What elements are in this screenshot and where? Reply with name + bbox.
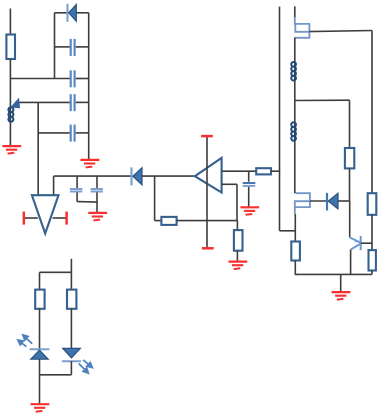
LED D4 arrows — [18, 335, 32, 347]
capacitor C6 — [91, 176, 103, 212]
wire stub above Q1 — [294, 6, 296, 17]
wire buffer right terminal — [53, 217, 66, 219]
diode D3 — [327, 193, 338, 211]
wire main row — [54, 175, 131, 177]
wire — [70, 309, 72, 349]
diode D1 — [68, 4, 77, 22]
wire feedback bottom left — [155, 220, 162, 222]
wire ladder top row — [55, 12, 68, 14]
resistor R9 — [35, 290, 44, 309]
wire Q3 base to right rail — [361, 242, 372, 244]
wire left tall rail — [279, 7, 281, 231]
inductor L2 — [291, 62, 296, 80]
wire LED top row — [40, 271, 72, 273]
variable inductor L1 coil — [8, 107, 13, 122]
capacitor C4 — [71, 125, 75, 142]
inductor L3 — [291, 122, 296, 140]
ground G5 — [240, 207, 259, 215]
wire buffer right input — [53, 176, 55, 195]
ground G6 — [332, 292, 351, 300]
wire op-amp power rail vertical — [206, 137, 208, 249]
resistor R3 — [161, 217, 176, 225]
wire to R4 — [236, 221, 238, 231]
wire R8 to bottom row — [294, 261, 296, 275]
transistor Q3 — [350, 236, 361, 250]
transistor Q1 — [294, 17, 309, 38]
resistor R10 — [67, 290, 76, 309]
wire rail bottom link — [280, 230, 296, 232]
wire wiper row to cap row 3 — [15, 101, 70, 103]
variable inductor L1 wiper arrow — [10, 98, 20, 109]
wire feedback drop — [154, 176, 156, 221]
ground G7 — [31, 404, 50, 412]
terminal bar left (red) — [23, 212, 26, 225]
wire junction to cap row 2 — [10, 78, 70, 80]
ground G2 — [81, 160, 100, 168]
wire — [9, 59, 11, 147]
wire right branch — [70, 272, 72, 289]
wire cap ladder left rail — [54, 13, 56, 79]
wire ground stub — [340, 274, 342, 292]
wire feedback right vertical — [236, 184, 238, 220]
diode D2 — [132, 167, 143, 185]
wire Q2 to R8 — [294, 214, 296, 242]
resistor R7 — [369, 250, 376, 270]
wire cap row 4 — [38, 132, 69, 134]
wire R4 to ground — [236, 251, 238, 262]
wire to ground — [39, 375, 41, 405]
wire cap pair link — [77, 201, 97, 204]
wire feedback bottom right — [177, 220, 238, 222]
ground G1 — [2, 146, 21, 154]
wire cap ladder right rail — [88, 13, 90, 160]
wire right rail mid — [371, 215, 373, 250]
wire cap row 2 right — [76, 78, 89, 80]
wire buffer left input — [37, 102, 39, 195]
LED D4 — [30, 349, 50, 359]
wire R5 to diode row — [349, 168, 351, 201]
wire op-amp + input row — [222, 170, 257, 172]
wire — [39, 309, 41, 349]
wire — [70, 361, 72, 375]
power bar top (red) — [201, 135, 213, 138]
wire diode to op-amp — [142, 175, 195, 177]
op-amp U2 — [195, 158, 222, 193]
wire Q2 to diode — [310, 200, 327, 202]
wire Q3 emitter down — [350, 250, 352, 275]
wire mid junction row — [295, 99, 350, 101]
resistor R4 — [234, 230, 243, 251]
wire Q1 drain to right rail — [309, 31, 372, 32]
wire diode to junction — [338, 200, 350, 202]
capacitor C7 — [243, 171, 256, 206]
capacitor C5 — [70, 176, 82, 202]
capacitor C2 — [71, 70, 75, 87]
ground G3 — [88, 213, 107, 221]
wire feedback top — [222, 183, 237, 185]
wire rail to Q2 — [294, 101, 296, 194]
resistor R5 — [345, 148, 354, 168]
LED D5 — [62, 348, 81, 361]
terminal bar right (red) — [65, 212, 68, 225]
resistor R8 — [291, 242, 300, 261]
wire resistor to rail — [271, 170, 280, 172]
LED D5 arrows — [79, 360, 93, 373]
wire cap row 1 — [55, 46, 70, 48]
op-amp U1 buffer triangle — [32, 195, 59, 233]
capacitor C3 — [71, 94, 75, 111]
power bar bottom (red) — [202, 247, 214, 250]
wire junction to Q3 collector — [349, 201, 351, 237]
ground G4 — [229, 262, 248, 270]
wire left branch — [39, 272, 41, 289]
wire LED bottom row — [40, 374, 72, 376]
resistor R2 — [256, 168, 271, 174]
transistor Q2 — [295, 193, 310, 214]
wire buffer left terminal — [25, 217, 38, 219]
wire LED stub top — [70, 259, 72, 273]
wire top-left stub — [9, 9, 11, 35]
resistor R6 — [368, 193, 377, 215]
resistor R1 — [6, 35, 15, 60]
wire bottom row — [295, 273, 372, 275]
wire right rail bottom — [371, 271, 373, 275]
wire right rail upper — [371, 31, 373, 194]
capacitor C1 — [71, 39, 75, 56]
wire to R5 — [349, 100, 351, 148]
wire cap row 3 right — [76, 101, 89, 103]
wire — [39, 359, 41, 375]
wire Q1 to L2 rail — [294, 38, 296, 101]
